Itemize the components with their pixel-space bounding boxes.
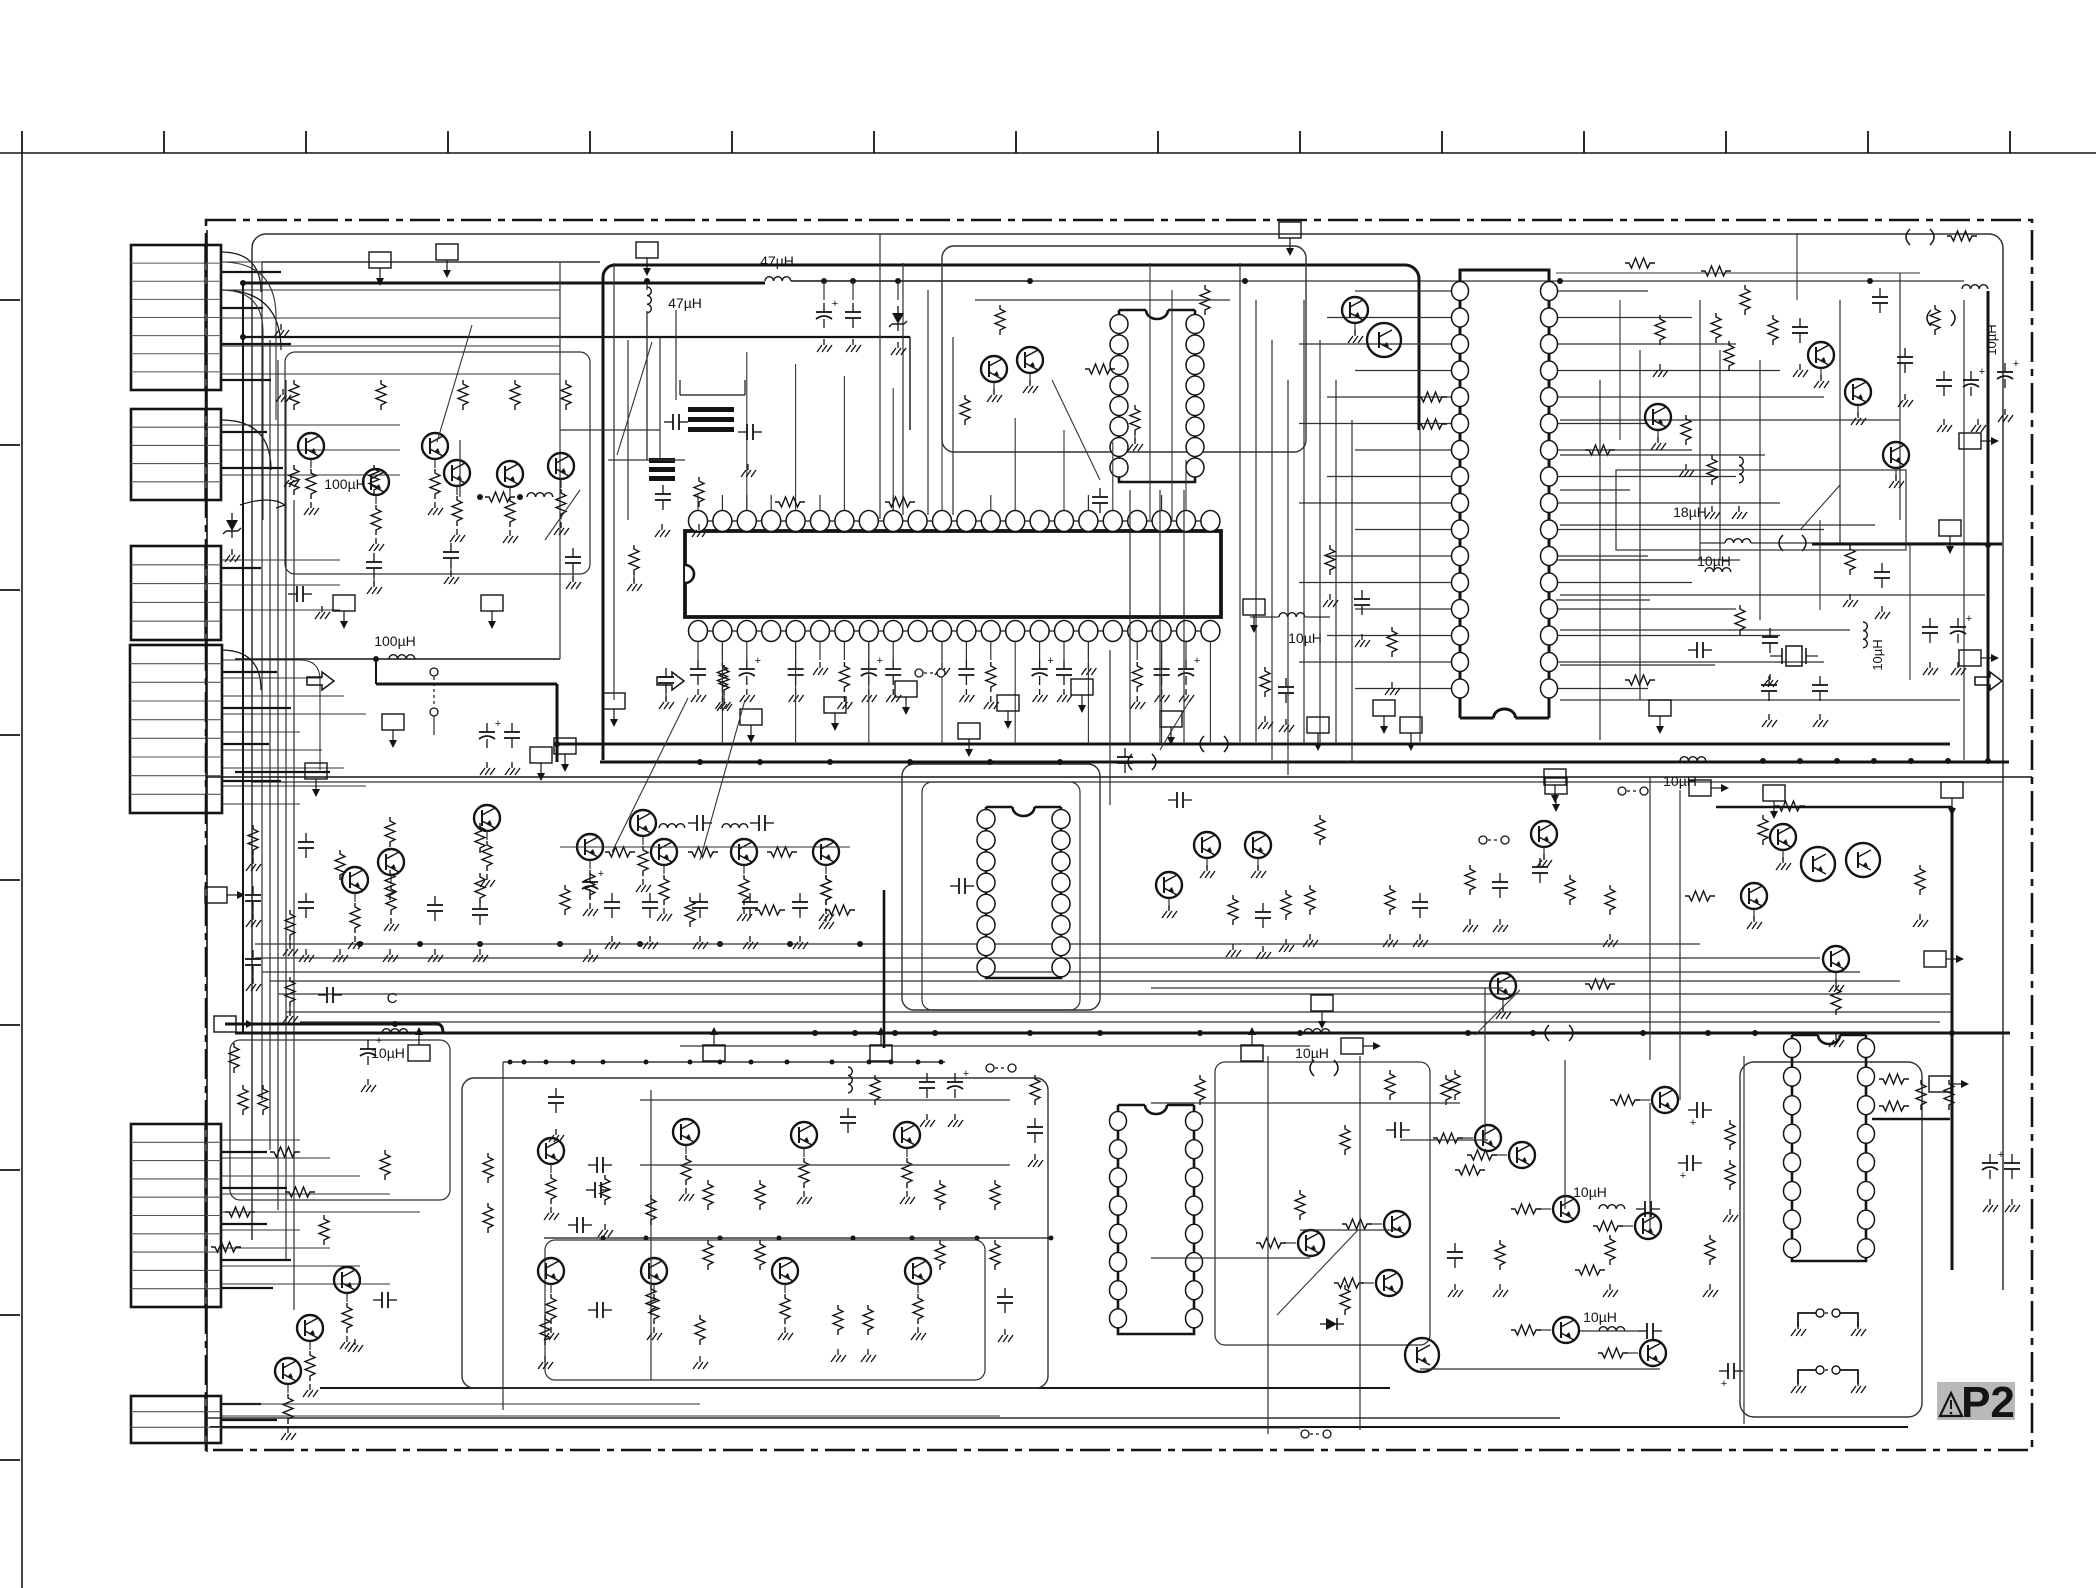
svg-text:18µH: 18µH: [1673, 504, 1707, 520]
svg-text:100µH: 100µH: [374, 633, 416, 649]
svg-text:+: +: [963, 1068, 969, 1080]
svg-text:P2: P2: [1961, 1378, 2015, 1427]
svg-text:+: +: [376, 1035, 382, 1047]
svg-text:+: +: [1680, 1170, 1686, 1182]
svg-text:+: +: [2013, 358, 2019, 370]
svg-text:10µH: 10µH: [1663, 773, 1697, 789]
svg-text:+: +: [832, 298, 838, 310]
svg-text:10µH: 10µH: [1573, 1184, 1607, 1200]
svg-text:+: +: [1690, 1117, 1696, 1129]
svg-text:+: +: [1194, 655, 1200, 667]
svg-text:+: +: [1979, 366, 1985, 378]
svg-text:100µH: 100µH: [324, 476, 366, 492]
svg-text:C: C: [387, 990, 398, 1007]
svg-text:+: +: [1966, 613, 1972, 625]
svg-text:10µH: 10µH: [1697, 553, 1731, 569]
svg-text:+: +: [495, 718, 501, 730]
svg-text:10µH: 10µH: [1870, 639, 1885, 670]
svg-text:10µH: 10µH: [1288, 630, 1322, 646]
svg-text:+: +: [1047, 655, 1053, 667]
svg-text:+: +: [1721, 1378, 1727, 1390]
svg-text:+: +: [877, 655, 883, 667]
svg-text:10µH: 10µH: [1295, 1045, 1329, 1061]
svg-text:47µH: 47µH: [668, 295, 702, 311]
svg-text:10µH: 10µH: [1984, 324, 1999, 355]
svg-text:10µH: 10µH: [1583, 1309, 1617, 1325]
svg-text:+: +: [755, 655, 761, 667]
svg-text:10µH: 10µH: [371, 1045, 405, 1061]
svg-text:+: +: [598, 868, 604, 880]
svg-text:+: +: [1998, 1149, 2004, 1161]
svg-text:47µH: 47µH: [760, 253, 794, 269]
